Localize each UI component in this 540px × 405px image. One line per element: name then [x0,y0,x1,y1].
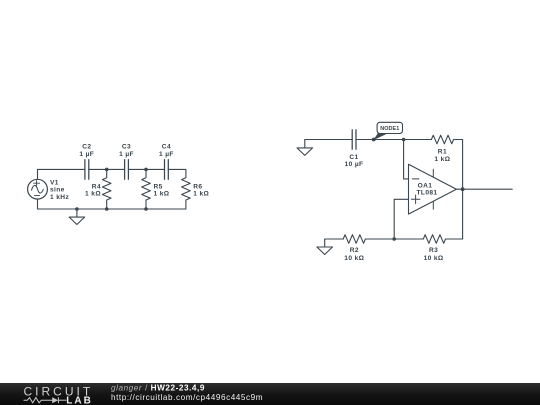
logo diode triangle [52,397,58,403]
V1 sine symbol [32,185,44,193]
svg-text:R1: R1 [438,148,447,155]
wire bottom rail left [38,208,186,210]
wire C3 to C4 [128,168,164,170]
ground right-bottom [317,239,333,255]
node dot minus branch [402,138,406,142]
svg-text:10 µF: 10 µF [345,161,364,168]
NODE1 flag box [377,122,402,133]
op-amp power tick bottom [432,201,434,209]
svg-text:C2: C2 [82,144,91,151]
wire C4 to right corner [168,168,186,170]
node dot output [461,187,465,191]
svg-text:1 µF: 1 µF [79,151,94,158]
resistor R4 [102,169,111,208]
op-amp power tick top [432,169,434,177]
svg-text:R4: R4 [92,183,101,190]
svg-text:1 kΩ: 1 kΩ [434,156,450,163]
logo resistor-diode symbol [24,397,67,403]
svg-text:TL081: TL081 [417,190,438,197]
wire plus input [394,199,408,239]
op-amp OA1 triangle [409,164,457,214]
wire C2 to C3 [89,168,125,170]
svg-text:glanger / HW22-23.4,9: glanger / HW22-23.4,9 [111,384,205,393]
svg-text:C4: C4 [162,144,171,151]
capacitor C4 [165,160,169,180]
wire output [456,188,512,190]
wire V1 top stub [37,169,39,179]
resistor R3 [423,235,462,244]
svg-text:1 kΩ: 1 kΩ [85,191,101,198]
NODE1 flag pointer [374,133,388,140]
capacitor C1 [352,130,356,150]
node dot plus branch bottom [392,237,396,241]
wire C1 to R1 [356,139,431,141]
wire bottom rail right [325,238,344,240]
svg-text:sine: sine [50,187,65,194]
node dot R5 bottom [144,207,148,211]
resistor R2 [343,235,423,244]
wire to minus input [404,140,409,179]
node dot NODE1 [372,138,376,142]
op-amp plus symbol [411,195,420,204]
svg-text:R3: R3 [429,247,438,254]
svg-text:1 µF: 1 µF [119,151,134,158]
capacitor C3 [125,160,129,180]
node dot R4 bottom [105,207,109,211]
op-amp minus symbol [412,178,419,180]
node dot C3-R5 [144,168,148,172]
ground right-top [297,140,313,156]
wire V1 bottom stub [37,199,39,209]
capacitor C2 [85,160,89,180]
svg-text:1 kHz: 1 kHz [50,194,69,201]
svg-text:R2: R2 [350,247,359,254]
svg-text:10 kΩ: 10 kΩ [424,255,444,262]
svg-text:1 µF: 1 µF [159,151,174,158]
node dot C2-R4 [105,168,109,172]
wire top rail left [38,168,85,170]
svg-text:LAB: LAB [66,396,93,405]
node dot ground left [75,207,79,211]
voltage source V1 [28,179,48,199]
svg-text:10 kΩ: 10 kΩ [344,255,364,262]
wire right vertical [462,140,464,240]
footer bar [0,383,540,405]
svg-text:OA1: OA1 [418,182,433,189]
svg-text:NODE1: NODE1 [380,126,399,132]
svg-text:http://circuitlab.com/cp4496c4: http://circuitlab.com/cp4496c445c9m [111,393,263,402]
resistor R6 [182,169,191,208]
svg-text:C1: C1 [349,154,358,161]
svg-text:1 kΩ: 1 kΩ [154,191,170,198]
svg-text:C3: C3 [122,144,131,151]
wire top rail right [305,139,352,141]
ground left circuit [69,209,84,225]
resistor R5 [142,169,151,208]
svg-text:1 kΩ: 1 kΩ [193,191,209,198]
svg-text:V1: V1 [50,180,59,187]
svg-text:R6: R6 [193,183,202,190]
V1 plus sign [34,180,40,186]
resistor R1 [431,135,462,144]
V1 minus sign [34,194,39,196]
svg-text:R5: R5 [154,183,163,190]
